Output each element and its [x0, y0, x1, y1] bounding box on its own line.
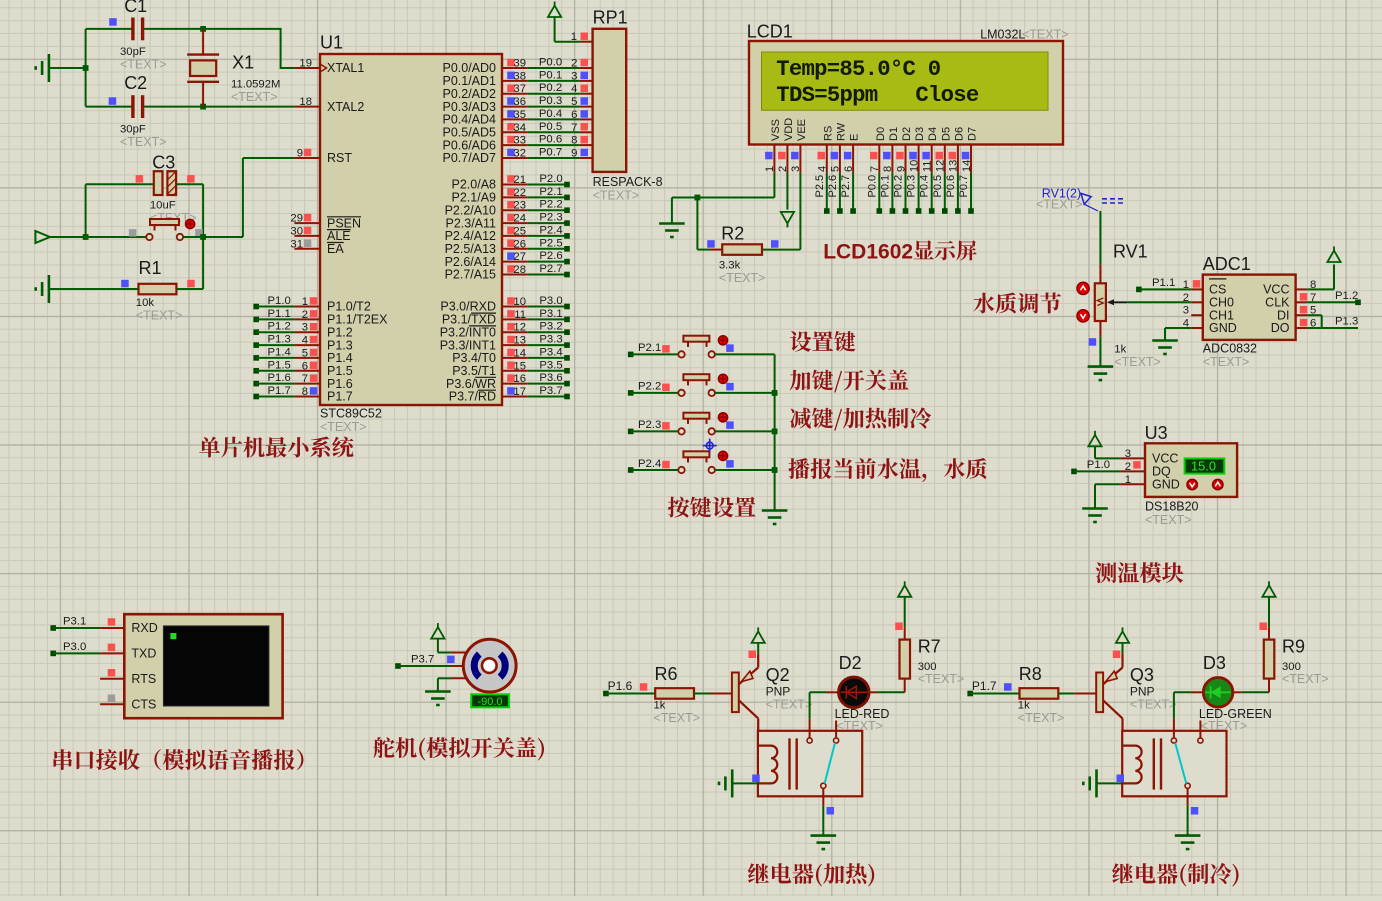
svg-text:P2.6/A14: P2.6/A14 — [445, 255, 496, 269]
svg-text:6: 6 — [843, 166, 855, 172]
svg-text:<TEXT>: <TEXT> — [1201, 719, 1248, 733]
svg-text:D0: D0 — [875, 127, 887, 141]
svg-text:1k: 1k — [654, 700, 666, 712]
svg-text:VSS: VSS — [770, 119, 782, 141]
svg-text:<TEXT>: <TEXT> — [766, 698, 813, 712]
svg-text:VDD: VDD — [783, 118, 795, 141]
svg-text:P2.6: P2.6 — [827, 175, 839, 198]
svg-text:35: 35 — [513, 109, 526, 121]
svg-text:P3.4: P3.4 — [539, 346, 562, 358]
svg-text:P1.7: P1.7 — [327, 390, 353, 404]
svg-text:13: 13 — [513, 335, 526, 347]
svg-text:5: 5 — [571, 96, 577, 108]
svg-text:30pF: 30pF — [120, 46, 146, 58]
svg-text:<TEXT>: <TEXT> — [654, 711, 701, 725]
svg-text:R6: R6 — [655, 664, 678, 684]
svg-text:<TEXT>: <TEXT> — [1203, 355, 1250, 369]
svg-text:P1.2: P1.2 — [1335, 290, 1358, 302]
svg-text:P3.7/RD: P3.7/RD — [449, 390, 496, 404]
svg-text:30pF: 30pF — [120, 124, 146, 136]
svg-text:D7: D7 — [967, 127, 979, 141]
svg-text:P1.0: P1.0 — [268, 295, 291, 307]
svg-text:U1: U1 — [320, 33, 343, 53]
svg-text:ADC0832: ADC0832 — [1203, 342, 1257, 356]
svg-text:RTS: RTS — [131, 672, 156, 686]
svg-text:33: 33 — [513, 135, 526, 147]
svg-text:23: 23 — [513, 200, 526, 212]
svg-text:P0.3: P0.3 — [906, 175, 918, 198]
svg-text:P0.2: P0.2 — [893, 175, 905, 198]
svg-text:P2.1: P2.1 — [539, 186, 562, 198]
svg-text:4: 4 — [817, 166, 829, 172]
svg-text:34: 34 — [513, 122, 526, 134]
svg-text:P2.0/A8: P2.0/A8 — [452, 178, 497, 192]
svg-text:RST: RST — [327, 151, 352, 165]
svg-text:22: 22 — [513, 187, 526, 199]
svg-text:P2.7: P2.7 — [840, 175, 852, 198]
svg-text:D4: D4 — [927, 127, 939, 141]
svg-text:12: 12 — [935, 160, 947, 172]
svg-text:C2: C2 — [124, 73, 147, 93]
svg-text:P1.7: P1.7 — [268, 385, 291, 397]
svg-text:GND: GND — [1209, 321, 1237, 335]
svg-text:3: 3 — [571, 70, 577, 82]
svg-text:29: 29 — [290, 213, 303, 225]
svg-text:DQ: DQ — [1152, 465, 1171, 479]
svg-text:PNP: PNP — [1130, 685, 1155, 699]
svg-text:Q2: Q2 — [766, 665, 790, 685]
svg-text:3.3k: 3.3k — [719, 260, 741, 272]
svg-text:14: 14 — [961, 160, 973, 172]
svg-text:R7: R7 — [918, 637, 941, 657]
svg-text:6: 6 — [571, 109, 577, 121]
svg-text:P3.1: P3.1 — [63, 616, 86, 628]
svg-text:P3.1: P3.1 — [539, 308, 562, 320]
svg-text:P3.3: P3.3 — [539, 334, 562, 346]
svg-text:P3.7: P3.7 — [411, 654, 434, 666]
svg-text:U3: U3 — [1145, 423, 1168, 443]
svg-text:P1.2: P1.2 — [327, 325, 353, 339]
svg-text:P1.6: P1.6 — [608, 679, 633, 693]
svg-text:<TEXT>: <TEXT> — [1145, 513, 1192, 527]
svg-text:8: 8 — [882, 166, 894, 172]
svg-text:LCD1: LCD1 — [747, 22, 793, 42]
svg-text:P0.0: P0.0 — [866, 175, 878, 198]
svg-text:14: 14 — [513, 347, 526, 359]
svg-text:EA: EA — [327, 242, 344, 256]
svg-text:R1: R1 — [139, 258, 162, 278]
svg-text:LCD1602: LCD1602 — [823, 241, 913, 264]
svg-text:D6: D6 — [953, 127, 965, 141]
svg-text:25: 25 — [513, 225, 526, 237]
svg-text:P3.0: P3.0 — [539, 295, 562, 307]
svg-text:4: 4 — [571, 83, 577, 95]
svg-text:RS: RS — [822, 126, 834, 141]
svg-text:1k: 1k — [1114, 344, 1126, 356]
svg-text:RESPACK-8: RESPACK-8 — [593, 175, 663, 189]
svg-text:P0.2: P0.2 — [539, 82, 562, 94]
svg-text:7: 7 — [302, 373, 308, 385]
svg-text:<TEXT>: <TEXT> — [836, 719, 883, 733]
svg-text:P0.4: P0.4 — [919, 175, 931, 198]
svg-text:VCC: VCC — [1263, 283, 1289, 297]
svg-text:P3.2/INT0: P3.2/INT0 — [440, 325, 496, 339]
svg-text:Q3: Q3 — [1130, 665, 1154, 685]
svg-text:<TEXT>: <TEXT> — [1282, 672, 1329, 686]
svg-text:<TEXT>: <TEXT> — [120, 57, 167, 71]
svg-text:21: 21 — [513, 174, 526, 186]
svg-text:P0.0/AD0: P0.0/AD0 — [442, 61, 496, 75]
svg-text:P0.5: P0.5 — [932, 175, 944, 198]
svg-text:<TEXT>: <TEXT> — [1036, 198, 1083, 212]
svg-text:P0.4/AD4: P0.4/AD4 — [442, 113, 496, 127]
svg-text:38: 38 — [513, 70, 526, 82]
svg-text:P0.7/AD7: P0.7/AD7 — [442, 151, 496, 165]
svg-text:CLK: CLK — [1265, 296, 1290, 310]
svg-text:31: 31 — [290, 238, 303, 250]
svg-text:<TEXT>: <TEXT> — [136, 308, 183, 322]
svg-text:STC89C52: STC89C52 — [320, 407, 382, 421]
svg-text:D1: D1 — [888, 127, 900, 141]
svg-text:P0.6: P0.6 — [539, 134, 562, 146]
svg-text:P1.3: P1.3 — [1335, 316, 1358, 328]
svg-text:P1.7: P1.7 — [972, 679, 997, 693]
svg-text:32: 32 — [513, 148, 526, 160]
svg-text:DS18B20: DS18B20 — [1145, 500, 1199, 514]
svg-text:P2.1: P2.1 — [638, 342, 661, 354]
svg-text:10: 10 — [513, 296, 526, 308]
svg-text:11: 11 — [514, 309, 526, 321]
svg-text:30: 30 — [290, 225, 303, 237]
svg-text:P2.4: P2.4 — [638, 458, 661, 470]
svg-text:VEE: VEE — [796, 119, 808, 141]
svg-text:P0.2/AD2: P0.2/AD2 — [442, 87, 496, 101]
svg-text:P1.1: P1.1 — [268, 308, 291, 320]
svg-text:P3.5: P3.5 — [539, 359, 562, 371]
svg-text:D2: D2 — [839, 653, 862, 673]
svg-text:RV1: RV1 — [1113, 242, 1148, 262]
svg-text:TDS=5ppm Close: TDS=5ppm Close — [776, 82, 979, 108]
svg-text:<TEXT>: <TEXT> — [719, 271, 766, 285]
svg-text:P0.0: P0.0 — [539, 57, 562, 69]
svg-text:D2: D2 — [901, 127, 913, 141]
svg-text:P0.7: P0.7 — [958, 175, 970, 198]
svg-text:1: 1 — [764, 166, 776, 172]
svg-text:<TEXT>: <TEXT> — [1114, 355, 1161, 369]
svg-text:<TEXT>: <TEXT> — [1022, 28, 1069, 42]
svg-text:P2.2: P2.2 — [539, 199, 562, 211]
svg-text:P3.0: P3.0 — [63, 641, 86, 653]
svg-text:P2.3: P2.3 — [539, 212, 562, 224]
svg-text:P2.4: P2.4 — [539, 224, 562, 236]
svg-text:TXD: TXD — [131, 647, 156, 661]
svg-text:X1: X1 — [232, 53, 254, 73]
svg-text:12: 12 — [513, 322, 526, 334]
svg-text:R2: R2 — [721, 224, 744, 244]
svg-text:P0.3: P0.3 — [539, 95, 562, 107]
svg-text:P3.0/RXD: P3.0/RXD — [440, 300, 496, 314]
svg-text:Temp=85.0°C 0: Temp=85.0°C 0 — [776, 56, 941, 82]
svg-text:XTAL1: XTAL1 — [327, 61, 364, 75]
svg-text:P2.5: P2.5 — [814, 175, 826, 198]
svg-text:24: 24 — [513, 213, 526, 225]
svg-text:PNP: PNP — [766, 685, 791, 699]
svg-text:<TEXT>: <TEXT> — [120, 135, 167, 149]
svg-text:RW: RW — [835, 122, 847, 141]
svg-text:R9: R9 — [1282, 637, 1305, 657]
svg-text:8: 8 — [571, 135, 577, 147]
svg-text:P1.4: P1.4 — [268, 346, 291, 358]
svg-text:300: 300 — [918, 661, 937, 673]
svg-text:9: 9 — [297, 148, 303, 160]
svg-text:2: 2 — [302, 309, 308, 321]
svg-text:2: 2 — [777, 166, 789, 172]
svg-text:P1.2: P1.2 — [268, 321, 291, 333]
svg-text:6: 6 — [302, 360, 308, 372]
svg-text:P2.3: P2.3 — [638, 419, 661, 431]
svg-text:2: 2 — [1125, 461, 1131, 473]
svg-text:P2.6: P2.6 — [539, 250, 562, 262]
svg-text:<TEXT>: <TEXT> — [1018, 711, 1065, 725]
svg-text:C1: C1 — [124, 0, 147, 16]
svg-text:P1.6: P1.6 — [268, 372, 291, 384]
svg-text:P2.2/A10: P2.2/A10 — [445, 203, 496, 217]
svg-text:P3.7: P3.7 — [539, 385, 562, 397]
svg-text:39: 39 — [513, 58, 526, 70]
svg-text:8: 8 — [302, 386, 308, 398]
svg-text:C3: C3 — [152, 153, 175, 173]
svg-text:P3.6: P3.6 — [539, 372, 562, 384]
svg-text:XTAL2: XTAL2 — [327, 100, 364, 114]
svg-text:P2.4/A12: P2.4/A12 — [445, 229, 496, 243]
svg-text:ALE: ALE — [327, 229, 351, 243]
svg-text:P2.0: P2.0 — [539, 173, 562, 185]
svg-text:P2.2: P2.2 — [638, 381, 661, 393]
svg-text:P0.5: P0.5 — [539, 121, 562, 133]
svg-text:ADC1: ADC1 — [1203, 254, 1251, 274]
svg-text:P1.3: P1.3 — [268, 334, 291, 346]
svg-text:3: 3 — [1183, 305, 1189, 317]
svg-text:9: 9 — [895, 166, 907, 172]
svg-text:1: 1 — [571, 31, 577, 43]
svg-text:<TEXT>: <TEXT> — [593, 189, 640, 203]
svg-text:P0.7: P0.7 — [539, 147, 562, 159]
svg-text:P3.6/WR: P3.6/WR — [446, 377, 496, 391]
svg-text:P1.0: P1.0 — [1087, 459, 1110, 471]
svg-text:P1.5: P1.5 — [268, 359, 291, 371]
svg-text:GND: GND — [1152, 478, 1180, 492]
svg-text:26: 26 — [513, 238, 526, 250]
svg-text:P3.4/T0: P3.4/T0 — [452, 351, 496, 365]
svg-text:3: 3 — [790, 166, 802, 172]
svg-text:RP1: RP1 — [593, 8, 628, 28]
svg-text:4: 4 — [302, 335, 308, 347]
svg-text:11: 11 — [922, 161, 934, 172]
svg-text:10: 10 — [908, 160, 920, 172]
svg-text:D3: D3 — [1203, 653, 1226, 673]
svg-text:<TEXT>: <TEXT> — [320, 420, 367, 434]
svg-text:<TEXT>: <TEXT> — [231, 90, 278, 104]
svg-text:11.0592M: 11.0592M — [231, 79, 280, 91]
svg-text:D5: D5 — [940, 127, 952, 141]
svg-text:P1.4: P1.4 — [327, 351, 353, 365]
svg-text:15.0: 15.0 — [1191, 459, 1216, 474]
svg-text:P2.7/A15: P2.7/A15 — [445, 268, 496, 282]
svg-text:2: 2 — [571, 58, 577, 70]
svg-text:P1.0/T2: P1.0/T2 — [327, 300, 371, 314]
svg-text:<TEXT>: <TEXT> — [918, 672, 965, 686]
svg-text:-90.0: -90.0 — [477, 696, 502, 708]
svg-text:36: 36 — [513, 96, 526, 108]
svg-text:10uF: 10uF — [150, 200, 176, 212]
svg-text:13: 13 — [948, 160, 960, 172]
svg-text:P0.4: P0.4 — [539, 108, 562, 120]
svg-text:1: 1 — [1125, 474, 1131, 486]
svg-text:1: 1 — [302, 296, 308, 308]
svg-text:1k: 1k — [1018, 700, 1030, 712]
svg-text:LM032L: LM032L — [980, 28, 1025, 42]
svg-text:7: 7 — [571, 122, 577, 134]
svg-text:10k: 10k — [136, 297, 155, 309]
svg-text:15: 15 — [513, 360, 526, 372]
svg-text:5: 5 — [302, 347, 308, 359]
svg-text:CTS: CTS — [131, 697, 156, 711]
svg-text:28: 28 — [513, 264, 526, 276]
svg-text:27: 27 — [513, 251, 526, 263]
svg-text:CH0: CH0 — [1209, 296, 1234, 310]
svg-text:9: 9 — [571, 148, 577, 160]
svg-text:P0.6: P0.6 — [945, 175, 957, 198]
svg-text:CS: CS — [1209, 283, 1226, 297]
svg-text:3: 3 — [1125, 448, 1131, 460]
svg-text:3: 3 — [302, 322, 308, 334]
svg-text:P0.6/AD6: P0.6/AD6 — [442, 138, 496, 152]
svg-text:P2.5: P2.5 — [539, 237, 562, 249]
svg-text:RXD: RXD — [131, 621, 157, 635]
svg-text:P2.7: P2.7 — [539, 263, 562, 275]
svg-text:P1.6: P1.6 — [327, 377, 353, 391]
svg-text:P0.1: P0.1 — [539, 69, 562, 81]
svg-text:R8: R8 — [1019, 664, 1042, 684]
svg-text:VCC: VCC — [1152, 452, 1178, 466]
svg-text:17: 17 — [513, 386, 526, 398]
svg-text:5: 5 — [830, 166, 842, 172]
svg-text:P0.1: P0.1 — [879, 175, 891, 198]
svg-text:E: E — [849, 134, 861, 141]
svg-text:16: 16 — [513, 373, 526, 385]
svg-text:DO: DO — [1271, 321, 1290, 335]
svg-text:37: 37 — [513, 83, 526, 95]
svg-text:P1.1: P1.1 — [1152, 277, 1175, 289]
svg-text:300: 300 — [1282, 661, 1301, 673]
svg-text:7: 7 — [869, 166, 881, 172]
svg-text:P3.2: P3.2 — [539, 321, 562, 333]
svg-text:D3: D3 — [914, 127, 926, 141]
svg-text:<TEXT>: <TEXT> — [1130, 698, 1177, 712]
